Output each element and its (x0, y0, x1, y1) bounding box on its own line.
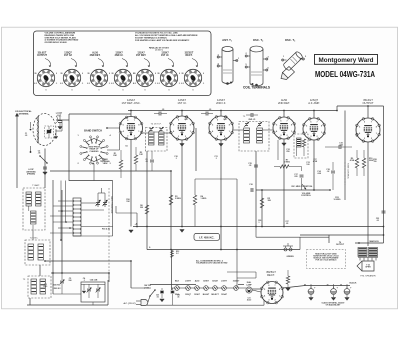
heater chain tubes (175, 281, 180, 296)
svg-text:LIGHT: LIGHT (185, 281, 192, 283)
svg-text:C25: C25 (224, 117, 227, 119)
svg-text:-1: -1 (155, 83, 157, 85)
svg-text:TOLERANCE 20% UNLESS NOTED: TOLERANCE 20% UNLESS NOTED (196, 262, 228, 265)
svg-text:95: 95 (112, 73, 114, 75)
ground tube C (219, 144, 223, 147)
IF transformer T5 2ND I.F. (239, 116, 269, 151)
svg-text:30: 30 (326, 285, 328, 287)
svg-text:T4 1ST I.F.: T4 1ST I.F. (151, 124, 162, 126)
svg-text:2ND I.F.: 2ND I.F. (115, 54, 124, 57)
capacitor C8 below T4 (150, 159, 154, 161)
svg-text:7: 7 (134, 120, 135, 122)
svg-text:6: 6 (280, 120, 281, 122)
on-off switch (144, 285, 156, 297)
IF frequency box (194, 234, 220, 241)
svg-text:RECT.: RECT. (186, 54, 193, 57)
resistor R4 (193, 195, 196, 205)
svg-text:LAMP: LAMP (246, 283, 252, 286)
svg-text:12SK7: 12SK7 (203, 281, 209, 283)
stub T5 left (233, 129, 244, 131)
capacitor C19 coupling (338, 145, 340, 149)
wire AVC bus (50, 170, 171, 172)
svg-text:95: 95 (61, 73, 63, 75)
volume control potentiometer (291, 184, 313, 197)
resistor R10 (362, 158, 365, 168)
svg-text:-1: -1 (109, 83, 111, 85)
svg-text:2: 2 (275, 300, 276, 302)
tube 12SA7 1ST DET.-OSC. (119, 98, 143, 140)
output transformer T6 (336, 242, 378, 261)
svg-text:7: 7 (371, 121, 372, 123)
svg-text:6.3: 6.3 (60, 83, 63, 85)
svg-text:FOR 25 CYCLE DETAILS: FOR 25 CYCLE DETAILS (316, 259, 338, 262)
wire screen link (116, 212, 137, 214)
diode load dashed box (294, 134, 308, 158)
svg-text:.05: .05 (249, 165, 252, 167)
line capacitor C20 (160, 290, 164, 292)
svg-text:0: 0 (179, 73, 180, 75)
svg-text:6.3: 6.3 (87, 83, 90, 85)
svg-text:.05: .05 (209, 109, 212, 111)
band switch rotary view (80, 130, 111, 166)
svg-text:-1: -1 (56, 83, 58, 85)
wire volume line (256, 189, 330, 191)
ground loop (43, 172, 47, 175)
svg-text:6: 6 (217, 119, 218, 121)
wire T1 to T2 (32, 230, 34, 240)
svg-text:C2A C2B: C2A C2B (90, 279, 98, 282)
svg-text:OR EQUIVALENT: OR EQUIVALENT (326, 304, 342, 307)
resistor R2 (134, 155, 137, 164)
svg-text:8: 8 (376, 126, 377, 128)
tube socket bottom view 35L6GT OUTPUT (34, 52, 57, 92)
svg-text:5: 5 (173, 124, 174, 126)
svg-text:ANT. T1: ANT. T1 (222, 38, 232, 43)
wire verticals from band box (60, 181, 62, 241)
stub T4 left (143, 132, 149, 134)
resistor R9 (355, 158, 358, 168)
stub T4 right (164, 132, 171, 134)
svg-text:RECT.: RECT. (267, 273, 275, 277)
svg-text:C16: C16 (249, 184, 252, 186)
wire B+ mid bus (133, 226, 384, 228)
svg-text:0: 0 (193, 89, 194, 91)
tube socket bottom view 35Z5GT RECT. (181, 52, 204, 92)
svg-text:.05: .05 (25, 135, 28, 137)
svg-text:6: 6 (310, 121, 311, 123)
svg-text:.02: .02 (376, 220, 379, 222)
svg-text:20: 20 (340, 285, 342, 287)
svg-text:12SQ7: 12SQ7 (185, 294, 191, 296)
antenna transformer T1 dashed box (21, 184, 45, 230)
gang condenser dashed link (108, 188, 110, 282)
junction dots left (52, 272, 54, 274)
svg-text:1: 1 (291, 131, 292, 133)
svg-text:1: 1 (229, 131, 230, 133)
svg-text:7: 7 (287, 120, 288, 122)
loop trimmer (45, 126, 54, 138)
svg-text:8: 8 (321, 126, 322, 128)
wire bottom-left horizontals (51, 272, 109, 274)
svg-text:BAND SWITCH: BAND SWITCH (84, 130, 102, 133)
electrolytic C22 (326, 284, 338, 300)
wire loop coil drop (30, 146, 32, 152)
speaker plug connector (284, 248, 287, 251)
svg-text:600 KC.: 600 KC. (53, 285, 61, 287)
svg-text:Montgomery Ward: Montgomery Ward (319, 57, 374, 64)
wire plug runs (148, 296, 150, 303)
svg-text:95: 95 (134, 73, 136, 75)
Montgomery Ward logo box (315, 55, 378, 65)
tube socket bottom view 12SA7 1ST DET. (133, 52, 156, 92)
svg-text:ON RED BOLD SCALE.: ON RED BOLD SCALE. (45, 41, 68, 44)
svg-text:1: 1 (279, 295, 280, 297)
svg-text:95: 95 (158, 73, 160, 75)
wire mid-left verticals (130, 261, 132, 288)
padder trimmer 1 (96, 199, 101, 207)
svg-text:150: 150 (374, 161, 377, 163)
svg-text:OSC. T2: OSC. T2 (253, 38, 263, 43)
svg-text:0: 0 (145, 89, 146, 91)
svg-text:40-60: 40-60 (247, 299, 251, 302)
svg-text:5: 5 (276, 125, 277, 127)
tube 12SK7 1ST I.F. (170, 98, 195, 140)
wire wafer links right (81, 202, 96, 204)
svg-text:-1: -1 (203, 83, 205, 85)
switch SW1 (40, 156, 47, 163)
svg-text:.05: .05 (145, 161, 148, 163)
svg-text:6.3: 6.3 (181, 83, 184, 85)
svg-text:300: 300 (140, 207, 143, 209)
svg-text:TONE CONTROL: TONE CONTROL (347, 163, 349, 180)
svg-text:8: 8 (190, 124, 191, 126)
screen resistor R5 (260, 198, 263, 208)
tube AL50 2ND DET. (273, 98, 296, 139)
svg-text:1: 1 (321, 132, 322, 134)
svg-text:6.3: 6.3 (133, 83, 136, 85)
svg-text:B-: B- (149, 247, 151, 249)
svg-text:P.M. SPEAKER: P.M. SPEAKER (360, 274, 376, 277)
svg-text:.05: .05 (162, 109, 165, 111)
tone control dashed (344, 162, 346, 185)
svg-text:1: 1 (376, 133, 377, 135)
svg-text:OSC. T3: OSC. T3 (285, 38, 295, 43)
svg-text:BLK: BLK (175, 281, 180, 283)
svg-text:2ND I.F.: 2ND I.F. (248, 119, 256, 121)
grid resistor R3 (169, 195, 172, 205)
wire E plate (313, 149, 315, 151)
svg-text:8: 8 (229, 124, 230, 126)
oscillator transformer T3 dashed box (23, 276, 51, 298)
svg-text:OUTPUT: OUTPUT (362, 101, 373, 105)
svg-text:1ST DET.: 1ST DET. (136, 54, 147, 57)
svg-text:0: 0 (56, 73, 57, 75)
svg-text:2ND I.F.: 2ND I.F. (216, 101, 226, 105)
svg-text:.05: .05 (286, 223, 289, 225)
padder trimmer 2 (103, 199, 108, 207)
wire wafer links left (58, 200, 73, 202)
svg-text:0: 0 (155, 73, 156, 75)
svg-text:5: 5 (212, 124, 213, 126)
ground tube B (180, 144, 184, 147)
svg-text:.02: .02 (327, 171, 330, 173)
svg-text:0: 0 (109, 73, 110, 75)
capacitor C15 (254, 164, 258, 166)
svg-text:GREEN: GREEN (286, 256, 294, 258)
svg-text:3: 3 (364, 138, 365, 140)
tube socket bottom view 12SK7 1ST I.F. (157, 52, 180, 92)
svg-text:.05: .05 (38, 153, 41, 155)
wire screen bus (195, 178, 237, 180)
tube socket bottom view AL50 2ND DET. (87, 52, 110, 92)
stub loop to tube A (56, 130, 62, 132)
svg-text:1 MEG: 1 MEG (201, 198, 207, 200)
svg-text:7: 7 (275, 285, 276, 287)
AC plug (124, 300, 148, 306)
svg-text:I.F. 456 KC.: I.F. 456 KC. (199, 236, 214, 240)
svg-text:2: 2 (134, 136, 135, 138)
svg-text:.05: .05 (156, 296, 158, 298)
svg-text:A.C. ( 110 V.): A.C. ( 110 V.) (124, 302, 136, 305)
svg-text:VIEW: VIEW (103, 163, 108, 165)
svg-text:3: 3 (280, 135, 281, 137)
svg-text:100: 100 (223, 119, 226, 121)
wire osc verticals (52, 180, 54, 294)
svg-text:COIL TERMINALS: COIL TERMINALS (243, 86, 270, 90)
ground tube D (282, 143, 286, 146)
svg-text:2: 2 (371, 138, 372, 140)
resistor R7 horizontal (280, 165, 289, 168)
svg-text:R15 4.7K: R15 4.7K (102, 228, 111, 231)
svg-text:8: 8 (138, 125, 139, 127)
svg-text:(FRAME): (FRAME) (27, 172, 35, 175)
svg-text:0: 0 (123, 89, 124, 91)
wire bottom right (300, 234, 384, 236)
svg-text:3: 3 (217, 136, 218, 138)
tuning gang condenser box (81, 279, 105, 303)
svg-text:.005: .005 (339, 145, 343, 147)
svg-text:5: 5 (264, 289, 265, 291)
svg-text:10 MEG: 10 MEG (334, 199, 341, 201)
wire lamp to rectifier (252, 290, 261, 292)
wire left antenna drop (16, 120, 18, 188)
svg-text:5: 5 (123, 125, 124, 127)
svg-text:7: 7 (317, 121, 318, 123)
svg-text:8: 8 (291, 125, 292, 127)
capacitor C8 (205, 112, 207, 116)
antenna arrow symbol (16, 115, 18, 120)
svg-text:12SA7: 12SA7 (221, 293, 227, 296)
svg-text:AL50: AL50 (195, 280, 200, 283)
svg-text:LIGHT: LIGHT (221, 281, 228, 283)
capacitor C7 on bus (158, 112, 160, 116)
svg-text:CONTROL: CONTROL (301, 195, 312, 197)
wire osc bottom (53, 293, 81, 295)
svg-text:2: 2 (224, 136, 225, 138)
wire ring bottom (93, 164, 95, 181)
svg-text:3: 3 (268, 300, 269, 302)
svg-text:BLK&T: BLK&T (203, 294, 210, 296)
wire cathode drops to bus (130, 140, 132, 227)
svg-text:95: 95 (35, 73, 37, 75)
wire loop bottom (44, 149, 46, 189)
wire bottom heater chain (150, 284, 196, 286)
svg-text:0: 0 (203, 73, 204, 75)
ground loop right (55, 131, 57, 136)
IF transformer T4 1ST I.F. (146, 124, 168, 152)
svg-text:A.F. AMP.: A.F. AMP. (308, 101, 320, 105)
wire box right extension (112, 181, 114, 237)
electrolytic C21 (304, 284, 316, 301)
capacitor C9 (250, 113, 252, 117)
service notes box (34, 31, 212, 96)
svg-text:470K: 470K (350, 159, 355, 162)
svg-text:3: 3 (310, 136, 311, 138)
electrolytic C23 (340, 284, 352, 300)
wire rect to electrolytics (283, 286, 305, 289)
svg-text:ANT.: ANT. (57, 115, 62, 118)
svg-text:35Z5GT: 35Z5GT (233, 281, 240, 283)
wire bottom B- bus (145, 304, 264, 306)
svg-text:3: 3 (127, 136, 128, 138)
capacitor C17 (300, 174, 304, 176)
svg-text:.1: .1 (83, 280, 85, 282)
svg-text:+: + (314, 285, 316, 289)
svg-text:6: 6 (178, 119, 179, 121)
capacitor C2 (43, 166, 47, 168)
padder C3 (60, 280, 64, 282)
svg-text:.1: .1 (215, 158, 217, 160)
svg-text:+: + (350, 285, 352, 289)
svg-text:0: 0 (99, 89, 100, 91)
oscillator coil OSC. T3 (281, 38, 307, 79)
svg-text:5: 5 (306, 126, 307, 128)
tube socket bottom view 12SQ7 1ST AF (60, 52, 83, 92)
svg-text:ANTENNA: ANTENNA (18, 113, 29, 116)
wire right B+ vertical (383, 106, 385, 243)
svg-text:6: 6 (364, 121, 365, 123)
svg-text:C6: C6 (125, 146, 127, 148)
svg-text:.1: .1 (175, 158, 177, 160)
svg-text:T1 ANT.: T1 ANT. (32, 184, 40, 187)
resistor R1 (119, 160, 122, 169)
cathode resistor R6 (145, 205, 148, 214)
label R12 (171, 251, 174, 258)
svg-text:1: 1 (138, 131, 139, 133)
svg-text:12SA7: 12SA7 (212, 280, 218, 283)
wire top right plate bus (337, 105, 384, 107)
svg-text:2 MEG: 2 MEG (175, 198, 181, 200)
svg-text:+: + (336, 285, 338, 289)
tube 35Z5GT rectifier (261, 270, 284, 304)
svg-text:T2 OSC.: T2 OSC. (30, 237, 39, 239)
svg-text:1ST I.F.: 1ST I.F. (161, 54, 170, 57)
svg-text:C24: C24 (184, 116, 187, 119)
svg-text:2: 2 (317, 136, 318, 138)
wire lower bus (147, 249, 300, 251)
loop base capacitor (58, 115, 62, 129)
svg-text:0: 0 (72, 89, 73, 91)
svg-text:2.2: 2.2 (176, 253, 179, 255)
grid cap stub tube A (107, 127, 120, 129)
svg-text:3: 3 (178, 136, 179, 138)
wire lower mid line (256, 236, 329, 238)
svg-text:2ND DET.: 2ND DET. (90, 54, 101, 57)
svg-text:FOR HEATER & DIAL LAMP VOLTAGE: FOR HEATER & DIAL LAMP VOLTAGES SEE SCHE… (135, 39, 190, 42)
tube 12SQ7 A.F. AMP. (303, 98, 326, 140)
svg-text:0: 0 (169, 89, 170, 91)
svg-text:0: 0 (82, 73, 83, 75)
svg-text:1: 1 (190, 131, 191, 133)
svg-text:SPKR: SPKR (365, 267, 371, 269)
stub T5 right (263, 129, 273, 131)
ground line cap (160, 299, 164, 302)
svg-text:8: 8 (279, 289, 280, 291)
svg-text:-1: -1 (179, 83, 181, 85)
svg-text:.1: .1 (258, 222, 260, 224)
wire T1 internals (28, 206, 30, 211)
svg-text:1ST DET.-OSC.: 1ST DET.-OSC. (122, 101, 141, 105)
svg-text:6.3: 6.3 (34, 83, 37, 85)
svg-text:12SK7: 12SK7 (194, 294, 200, 296)
svg-text:40: 40 (304, 284, 306, 287)
svg-text:R8 1 MEG POTENTIOM.: R8 1 MEG POTENTIOM. (291, 186, 313, 188)
svg-text:OSC.: OSC. (43, 286, 48, 288)
band switch wafer ladder (73, 198, 81, 236)
svg-text:95: 95 (88, 73, 90, 75)
svg-text:220: 220 (294, 176, 297, 178)
svg-text:( 0.15 V. ): ( 0.15 V. ) (155, 50, 163, 52)
svg-text:250: 250 (184, 119, 187, 121)
svg-text:250: 250 (286, 151, 289, 153)
svg-text:100: 100 (306, 164, 309, 166)
svg-text:2: 2 (185, 136, 186, 138)
svg-text:2ND DET.: 2ND DET. (278, 101, 290, 105)
svg-text:MODEL 04WG-731A: MODEL 04WG-731A (315, 70, 375, 79)
speaker cone (357, 261, 376, 277)
svg-text:OUTPUT: OUTPUT (336, 244, 345, 246)
capacitor C18 (331, 170, 335, 172)
svg-text:390: 390 (68, 280, 71, 282)
svg-text:BLACK: BLACK (350, 282, 358, 285)
oscillator transformer T2 dashed box (25, 237, 50, 265)
svg-text:1 MEG: 1 MEG (284, 162, 290, 164)
line capacitor C21a (171, 290, 175, 292)
oscillator coil OSC. T2 (245, 38, 269, 86)
svg-text:.05: .05 (177, 296, 179, 298)
svg-text:1ST I.F.: 1ST I.F. (177, 101, 186, 105)
wire plate drops (130, 111, 132, 117)
svg-text:CHASSIS: CHASSIS (90, 150, 100, 153)
tube 35L6GT OUTPUT (356, 98, 381, 142)
svg-text:-1: -1 (82, 83, 84, 85)
antenna coil ANT. T1 (217, 38, 240, 85)
svg-text:2: 2 (287, 135, 288, 137)
wire loop to box (56, 119, 69, 121)
wire padders top (97, 193, 99, 199)
wire ring to tube A (107, 149, 120, 151)
svg-text:6: 6 (268, 285, 269, 287)
grounds mid (129, 230, 133, 233)
resistor R11 near rect (286, 276, 289, 284)
svg-text:95: 95 (182, 73, 184, 75)
wire top B+ bus (128, 110, 337, 112)
wire heater links (172, 287, 175, 289)
svg-text:( VOL ): ( VOL ) (144, 287, 151, 289)
svg-text:.01: .01 (356, 136, 359, 138)
svg-text:6.3: 6.3 (111, 83, 114, 85)
capacitor C16 on volume line (250, 188, 252, 192)
